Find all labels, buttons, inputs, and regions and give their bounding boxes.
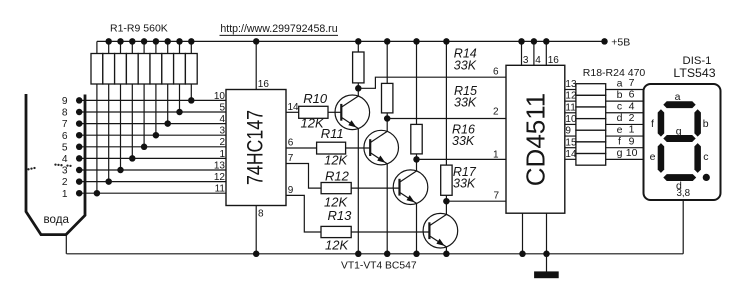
pin 3 CD4511 wire to +5V bus bbox=[518, 38, 529, 66]
pin labels 74HC147 inputs 10 5 4 3 2 1 13 12 11 bbox=[214, 91, 226, 195]
node VT3 collector / R16 junction bbox=[413, 154, 420, 171]
wire R5 bottom to sensor line 5 junction bbox=[141, 84, 148, 150]
display DIS-1 LTS543 outline bbox=[644, 84, 721, 200]
wire R4 top to +5V bus junction bbox=[129, 38, 136, 53]
svg-text:6: 6 bbox=[493, 67, 499, 78]
pin labels CD4511 inputs 6 2 1 7 bbox=[493, 67, 500, 202]
wire R9 top to +5V bus junction bbox=[188, 38, 195, 53]
wire R8 bottom to sensor line 8 junction bbox=[176, 84, 183, 115]
pin 12 CD4511 output wire to R19 bbox=[565, 91, 577, 102]
display segment f bbox=[658, 109, 665, 136]
svg-text:5: 5 bbox=[219, 102, 225, 113]
wire R17 top to +5V bus junction bbox=[443, 38, 450, 165]
wire R5 top to +5V bus junction bbox=[141, 38, 148, 53]
pin 13 CD4511 output wire to R18 bbox=[565, 79, 577, 90]
svg-text:1: 1 bbox=[62, 189, 68, 200]
label DIS-1 bbox=[683, 55, 712, 67]
wire sensor line 3 (electrode tip) to 74HC147 bbox=[62, 166, 226, 177]
resistor R12 12K bbox=[321, 168, 351, 209]
pin 3,8 display common label bbox=[676, 188, 690, 199]
pin 9 CD4511 output wire to R22 bbox=[565, 126, 576, 137]
svg-text:c: c bbox=[617, 101, 622, 113]
resistor R13 12K bbox=[321, 208, 352, 252]
svg-text:12K: 12K bbox=[324, 153, 348, 168]
svg-text:11: 11 bbox=[565, 102, 576, 113]
svg-text:R13: R13 bbox=[328, 208, 353, 223]
display decimal point bbox=[703, 174, 710, 181]
svg-text:вода: вода bbox=[44, 213, 70, 226]
svg-text:R12: R12 bbox=[325, 168, 350, 183]
wire R4 bottom to sensor line 4 junction bbox=[129, 84, 136, 162]
svg-text:b: b bbox=[703, 118, 709, 130]
transistor VT3 BC547 bbox=[393, 170, 428, 205]
display segment g bbox=[663, 135, 695, 142]
svg-text:LTS543: LTS543 bbox=[673, 66, 715, 80]
pin 14 74HC147 output wire to R10 bbox=[286, 102, 299, 113]
svg-text:c: c bbox=[703, 151, 708, 163]
svg-text:4: 4 bbox=[62, 154, 68, 165]
svg-text:8: 8 bbox=[258, 209, 264, 220]
wire R10 to VT1 base bbox=[328, 111, 341, 113]
svg-text:14: 14 bbox=[565, 149, 577, 160]
svg-text:16: 16 bbox=[548, 55, 560, 66]
wire CD4511 pin D input from VT1 collector bbox=[358, 77, 506, 88]
wire R15 top to +5V bus junction bbox=[384, 38, 391, 83]
display segment b bbox=[694, 109, 701, 136]
wire R2 top to +5V bus junction bbox=[105, 38, 112, 53]
wire R11 to VT2 base bbox=[346, 147, 371, 149]
transistor VT4 BC547 bbox=[423, 213, 458, 248]
node VT4 collector / R17 junction bbox=[443, 195, 450, 214]
transistor VT2 BC547 bbox=[364, 130, 399, 165]
svg-text:6: 6 bbox=[629, 89, 635, 101]
svg-text:11: 11 bbox=[215, 184, 226, 195]
resistor R16 33K bbox=[411, 123, 475, 154]
wire R13 to VT4 base bbox=[351, 231, 429, 233]
svg-text:e: e bbox=[617, 124, 623, 136]
resistor R14 33K bbox=[353, 47, 477, 83]
pin 4 CD4511 wire to +5V bus bbox=[531, 38, 542, 66]
svg-text:9: 9 bbox=[629, 135, 635, 147]
svg-text:33K: 33K bbox=[453, 177, 476, 191]
wire sensor line 7 (electrode tip) to 74HC147 bbox=[62, 119, 226, 130]
svg-text:g: g bbox=[676, 125, 682, 137]
node VT2 collector / R15 junction bbox=[384, 113, 391, 132]
svg-text:33K: 33K bbox=[454, 96, 477, 110]
water vessel outline bbox=[26, 94, 85, 235]
label R1-R9 560K bbox=[110, 22, 168, 34]
node VT1 collector / R14 junction bbox=[355, 83, 362, 96]
resistor array R18-R24 470 bbox=[576, 84, 606, 165]
svg-text:1: 1 bbox=[219, 149, 225, 160]
svg-text:12: 12 bbox=[214, 172, 226, 183]
wire R22 to display segment e pin 1 bbox=[606, 124, 643, 136]
svg-text:10: 10 bbox=[565, 114, 577, 125]
svg-text:e: e bbox=[650, 151, 656, 163]
wire R12 to VT3 base bbox=[351, 187, 399, 189]
pin 6 74HC147 output wire to R11 bbox=[286, 137, 317, 148]
wire vessel bottom to ground bus bbox=[65, 235, 67, 254]
svg-text:R1-R9 560K: R1-R9 560K bbox=[110, 22, 168, 34]
svg-text:15: 15 bbox=[565, 137, 577, 148]
svg-text:7: 7 bbox=[62, 119, 68, 130]
op IC U2 CD4511 BCD to 7-segment decoder bbox=[506, 65, 565, 213]
svg-text:g: g bbox=[617, 147, 623, 159]
svg-text:6: 6 bbox=[288, 137, 294, 148]
pin 11 CD4511 output wire to R20 bbox=[565, 102, 576, 113]
wire display common cathode to ground bus bbox=[682, 200, 684, 254]
svg-text:3: 3 bbox=[219, 126, 225, 137]
resistor R15 33K bbox=[382, 83, 477, 113]
label LTS543 bbox=[673, 66, 715, 80]
svg-text:16: 16 bbox=[258, 79, 270, 90]
svg-text:a: a bbox=[675, 91, 681, 103]
svg-text:9: 9 bbox=[288, 185, 294, 196]
wire R23 to display segment f pin 9 bbox=[606, 135, 643, 147]
svg-text:4: 4 bbox=[535, 55, 541, 66]
wire R3 top to +5V bus junction bbox=[117, 38, 124, 53]
svg-text:1: 1 bbox=[493, 149, 499, 160]
wire R6 bottom to sensor line 6 junction bbox=[153, 84, 160, 138]
svg-text:R10: R10 bbox=[303, 91, 328, 106]
label R18-R24 470 bbox=[583, 67, 646, 79]
svg-text:7: 7 bbox=[493, 191, 499, 202]
wire VT2 emitter to ground bus junction bbox=[384, 164, 391, 257]
svg-text:13: 13 bbox=[565, 79, 577, 90]
wire sensor line 4 (electrode tip) to 74HC147 bbox=[62, 154, 226, 165]
pin 15 CD4511 output wire to R23 bbox=[565, 137, 577, 148]
pin 8 74HC147 GND wire to ground bus bbox=[253, 206, 264, 258]
wire CD4511 pin B input from VT2 collector bbox=[387, 118, 506, 120]
svg-text:6: 6 bbox=[62, 131, 68, 142]
svg-text:VT1-VT4 BC547: VT1-VT4 BC547 bbox=[341, 261, 417, 272]
svg-text:9: 9 bbox=[62, 96, 68, 107]
svg-text:7: 7 bbox=[288, 153, 294, 164]
svg-text:d: d bbox=[617, 112, 623, 124]
svg-text:a: a bbox=[617, 77, 623, 89]
svg-text:3,8: 3,8 bbox=[676, 188, 690, 199]
svg-text:4: 4 bbox=[629, 100, 635, 112]
wire sensor line 6 (electrode tip) to 74HC147 bbox=[62, 131, 226, 142]
label VT1-VT4 BC547 bbox=[341, 261, 417, 272]
wire R21 to display segment d pin 2 bbox=[606, 112, 643, 124]
wire R1 top to +5V bus bbox=[96, 41, 98, 53]
svg-text:12: 12 bbox=[565, 91, 577, 102]
svg-text:2: 2 bbox=[62, 177, 68, 188]
label site address text bbox=[220, 23, 339, 36]
wire R8 top to +5V bus junction bbox=[176, 38, 183, 53]
svg-text:8: 8 bbox=[62, 108, 68, 119]
svg-text:2: 2 bbox=[629, 112, 635, 124]
node +5B supply terminal bbox=[601, 36, 630, 48]
label вода (water) bbox=[44, 213, 70, 226]
svg-text:http://www.299792458.ru: http://www.299792458.ru bbox=[220, 23, 337, 35]
wire R14 top to +5V bus junction bbox=[355, 38, 362, 52]
wire R1 bottom to sensor line 1 junction bbox=[94, 84, 101, 196]
svg-text:CD4511: CD4511 bbox=[521, 93, 551, 186]
svg-text:+5B: +5B bbox=[611, 36, 630, 48]
svg-text:10: 10 bbox=[626, 147, 638, 159]
resistor array R1-R9 560K bbox=[91, 54, 197, 85]
svg-text:33K: 33K bbox=[452, 134, 475, 148]
svg-text:5: 5 bbox=[62, 142, 68, 153]
wire R6 top to +5V bus junction bbox=[153, 38, 160, 53]
pin 7 74HC147 output wire to R12 bbox=[286, 153, 321, 188]
svg-text:2: 2 bbox=[219, 137, 225, 148]
svg-text:f: f bbox=[618, 136, 621, 148]
wire sensor line 2 (electrode tip) to 74HC147 bbox=[62, 177, 226, 188]
wire R2 bottom to sensor line 2 junction bbox=[105, 84, 112, 185]
op IC U1 74HC147 priority encoder bbox=[226, 90, 286, 206]
svg-text:74HC147: 74HC147 bbox=[243, 110, 268, 185]
wire sensor line 8 (electrode tip) to 74HC147 bbox=[62, 108, 226, 119]
wire R20 to display segment c pin 4 bbox=[606, 100, 643, 112]
svg-text:3: 3 bbox=[62, 166, 68, 177]
pin 16 74HC147 Vcc wire to +5V bus bbox=[253, 38, 269, 90]
pin 10 CD4511 output wire to R21 bbox=[565, 114, 577, 125]
wire sensor line 5 (electrode tip) to 74HC147 bbox=[62, 142, 226, 153]
wire VT1 emitter to ground bus junction bbox=[355, 129, 362, 258]
svg-text:33K: 33K bbox=[454, 58, 477, 72]
wire VT3 emitter to ground bus junction bbox=[413, 203, 420, 257]
svg-text:3: 3 bbox=[523, 55, 529, 66]
svg-text:13: 13 bbox=[214, 160, 226, 171]
svg-text:12K: 12K bbox=[325, 238, 349, 253]
svg-text:2: 2 bbox=[493, 107, 499, 118]
pin GND CD4511 wire to ground junction bbox=[543, 213, 550, 257]
svg-text:b: b bbox=[617, 89, 623, 101]
display segment c bbox=[694, 143, 701, 173]
pin 9 74HC147 output wire to R13 bbox=[286, 185, 321, 232]
svg-text:f: f bbox=[651, 118, 654, 130]
pin 16 CD4511 wire to +5V bus bbox=[543, 38, 559, 66]
pin 8 CD4511 wire to ground bus junction bbox=[519, 213, 526, 257]
wire CD4511 pin C input from VT3 collector bbox=[417, 158, 507, 160]
svg-text:R18-R24 470: R18-R24 470 bbox=[583, 67, 646, 79]
svg-text:4: 4 bbox=[219, 114, 225, 125]
pin 14 CD4511 output wire to R24 bbox=[565, 149, 577, 160]
display segment e bbox=[658, 143, 665, 173]
wire VT4 emitter to ground bus junction bbox=[443, 247, 450, 257]
wire CD4511 pin A input from VT4 collector bbox=[446, 200, 506, 202]
svg-text:9: 9 bbox=[565, 126, 571, 137]
svg-text:7: 7 bbox=[629, 77, 635, 89]
wire R7 top to +5V bus junction bbox=[164, 38, 171, 53]
svg-text:14: 14 bbox=[288, 102, 300, 113]
svg-text:R11: R11 bbox=[321, 126, 344, 141]
transistor VT1 BC547 bbox=[335, 95, 370, 130]
ground symbol bbox=[534, 254, 559, 278]
water level dotted mark bbox=[27, 163, 71, 170]
wire R3 bottom to sensor line 3 junction bbox=[117, 84, 124, 173]
display segment d bbox=[663, 174, 696, 181]
display segment labels a b c d e f g bbox=[650, 91, 709, 192]
wire sensor line 1 (electrode tip) to 74HC147 bbox=[62, 189, 226, 200]
wire R19 to display segment b pin 6 bbox=[606, 89, 643, 101]
svg-text:1: 1 bbox=[629, 124, 635, 136]
wire R16 top to +5V bus junction bbox=[413, 38, 420, 124]
wire sensor line 9 (electrode tip) to 74HC147 bbox=[62, 96, 226, 107]
resistor R11 12K bbox=[317, 126, 349, 167]
resistor R10 12K bbox=[299, 91, 328, 131]
wire R9 bottom to sensor line 9 junction bbox=[188, 84, 195, 104]
wire R18 to display segment a pin 7 bbox=[606, 77, 643, 89]
resistor R17 33K bbox=[441, 165, 477, 195]
wire bottom ground bus bbox=[67, 253, 684, 255]
wire R24 to display segment g pin 10 bbox=[606, 147, 643, 159]
wire R7 bottom to sensor line 7 junction bbox=[164, 84, 171, 127]
display segment a bbox=[663, 101, 695, 108]
wire +5V top supply bus bbox=[97, 40, 605, 42]
svg-text:10: 10 bbox=[214, 91, 226, 102]
